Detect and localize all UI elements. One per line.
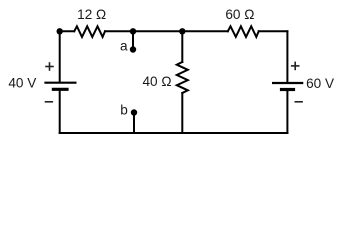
svg-text:b: b [120,103,128,118]
junction dot top-left corner [57,28,63,34]
wire left upper [59,31,61,81]
wire right lower [286,91,288,133]
battery V2 short plate [280,88,295,91]
resistor R1 12 ohm zigzag [74,26,105,37]
battery V1 plus sign [45,62,54,71]
svg-text:40 V: 40 V [8,76,36,91]
wire top left segment [60,30,74,32]
battery V2 plus sign [291,62,300,71]
svg-text:12 Ω: 12 Ω [77,7,106,22]
wire top middle segment [105,30,228,32]
wire top right segment [259,30,288,32]
resistor R2 40 ohm zigzag [177,62,188,93]
resistor R3 60 ohm zigzag [228,26,259,37]
junction dot node a on top wire [130,28,136,34]
wire left lower [59,91,61,133]
node b terminal dot [131,109,137,115]
battery V2 minus sign [295,101,303,103]
node a terminal dot [130,46,136,52]
battery V1 short plate [52,88,69,91]
wire branch upper [181,31,183,62]
svg-text:60 Ω: 60 Ω [225,7,254,22]
wire right upper [286,31,288,82]
svg-text:40 Ω: 40 Ω [142,74,171,89]
battery V1 long plate [44,82,76,84]
svg-text:a: a [120,38,128,53]
battery V2 long plate [272,82,303,84]
battery V1 minus sign [45,101,53,103]
wire node a stub [132,31,134,49]
wire bottom [60,132,288,134]
wire node b stub [133,113,135,134]
svg-text:60 V: 60 V [306,76,334,91]
wire branch lower [181,93,183,133]
junction dot branch top [179,28,185,34]
